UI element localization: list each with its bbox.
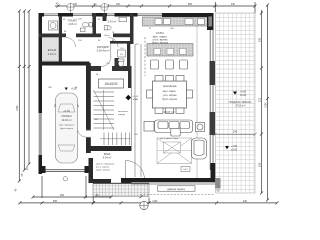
dining table <box>147 76 193 114</box>
svg-text:240: 240 <box>231 3 236 6</box>
right glass wall thin <box>209 30 212 170</box>
pantry hatch <box>42 38 60 62</box>
top <box>55 5 255 7</box>
svg-text:18x16/30: 18x16/30 <box>104 82 117 86</box>
svg-text:1190: 1190 <box>264 102 267 108</box>
svg-text:вкуп. површина: вкуп. површина <box>59 125 75 127</box>
svg-text:бруто. вкупна: бруто. вкупна <box>60 128 74 130</box>
wc1 fixtures <box>81 23 93 32</box>
terrace grid <box>216 13 256 193</box>
svg-text:158: 158 <box>258 162 261 167</box>
garage labels <box>59 109 75 130</box>
wc2 walls <box>103 13 107 21</box>
stairs left wall (garage right wall) <box>86 63 91 130</box>
svg-text:дрвена тераса: дрвена тераса <box>167 188 185 191</box>
svg-text:595: 595 <box>53 200 58 203</box>
svg-text:2.43 m²: 2.43 m² <box>108 21 117 24</box>
DIMENSION LINES <box>18 2 279 204</box>
svg-text:240: 240 <box>233 130 238 134</box>
svg-text:бруто. вкупна: бруто. вкупна <box>162 99 177 101</box>
rug with coffee table <box>157 138 192 164</box>
svg-text:бруто. вкупна: бруто. вкупна <box>96 170 111 172</box>
svg-text:вкуп. површ.: вкуп. површ. <box>163 91 177 93</box>
svg-text:ШПАЈЗ: ШПАЈЗ <box>48 49 57 52</box>
stairs lower flight <box>100 133 131 146</box>
porch tiles <box>93 183 149 197</box>
dim texts <box>53 3 248 204</box>
svg-text:18.07 m²: 18.07 m² <box>163 110 174 114</box>
entry door arc <box>126 161 145 180</box>
svg-text:ГАРАЖА: ГАРАЖА <box>61 114 72 118</box>
wc1 right wall <box>93 13 97 37</box>
interior thin lines <box>131 37 145 177</box>
left verticals <box>18 11 20 181</box>
scattered tiny dim texts <box>48 19 174 137</box>
small toilet room below wc2 <box>110 41 130 69</box>
bottom right corner <box>211 163 216 182</box>
wc2 fixtures <box>104 17 126 30</box>
svg-text:±0.00: ±0.00 <box>240 94 247 97</box>
right wall dark panels <box>210 61 216 85</box>
svg-text:ГРАДИНА ТЕРАСА: ГРАДИНА ТЕРАСА <box>229 100 252 104</box>
laundry/pantry right wall <box>59 16 62 64</box>
svg-text:3.05+4a m²: 3.05+4a m² <box>97 50 110 53</box>
terrace inner dim line <box>214 133 257 136</box>
wall under laundry <box>39 34 63 38</box>
svg-text:+0.00: +0.00 <box>63 109 70 113</box>
side table with lamp <box>196 123 205 132</box>
svg-text:4.03 m²: 4.03 m² <box>68 23 77 26</box>
living bottom wall <box>121 178 215 182</box>
washing machine <box>49 21 58 30</box>
svg-text:1190: 1190 <box>16 105 19 111</box>
garage level mark <box>65 88 78 91</box>
corridor door arcs <box>66 38 76 48</box>
kitchen counter top <box>143 17 212 26</box>
interior boundary line <box>196 17 198 178</box>
svg-text:бруто. вкупна: бруто. вкупна <box>152 42 168 45</box>
terrace labels <box>225 91 252 152</box>
floor vent box <box>181 167 190 172</box>
svg-text:19.04 m²: 19.04 m² <box>61 118 71 122</box>
corridor top walls <box>62 34 66 38</box>
svg-text:дво седишта софа: дво седишта софа <box>160 137 179 140</box>
bar stools <box>151 60 188 69</box>
left wall <box>39 13 43 113</box>
garage top wall <box>39 62 90 66</box>
bottom label box <box>158 186 196 191</box>
extension ticks bottom of garage <box>41 176 43 198</box>
svg-text:уто.е. вкупна: уто.е. вкупна <box>96 167 110 169</box>
stairs upper flight <box>94 90 115 130</box>
svg-text:240: 240 <box>258 37 261 42</box>
svg-text:213: 213 <box>258 97 261 102</box>
entry left wall <box>89 158 94 183</box>
right wall top corner <box>207 13 214 30</box>
kitchen island <box>147 44 193 57</box>
top wall segments <box>39 13 45 17</box>
small circle near garage door <box>63 177 67 181</box>
section circle bottom <box>140 201 148 209</box>
svg-text:±0.00: ±0.00 <box>231 148 238 151</box>
axis markers top <box>67 3 108 10</box>
bottom <box>33 196 111 198</box>
svg-text:1.04 m²: 1.04 m² <box>48 53 57 56</box>
corridor bottom walls <box>86 66 101 71</box>
top windows (thin) <box>44 13 58 16</box>
svg-text:уто.е. вкупна: уто.е. вкупна <box>163 95 178 97</box>
svg-text:195: 195 <box>73 3 78 6</box>
room labels <box>48 20 169 160</box>
sofa <box>144 120 193 136</box>
svg-text:просто. површина: просто. површина <box>96 164 115 166</box>
level marker hall <box>126 95 139 101</box>
svg-text:240: 240 <box>243 200 248 203</box>
svg-text:монтажна: монтажна <box>118 111 129 113</box>
svg-text:292: 292 <box>60 194 65 197</box>
svg-text:160: 160 <box>116 3 121 6</box>
svg-text:1191: 1191 <box>152 200 158 203</box>
svg-text:565: 565 <box>188 3 193 6</box>
svg-text:292: 292 <box>26 165 29 170</box>
svg-text:4.04 m²: 4.04 m² <box>103 157 112 160</box>
WALLS <box>39 13 221 189</box>
svg-text:+1.45: +1.45 <box>133 96 139 98</box>
garage bottom stubs and door <box>39 166 46 173</box>
svg-text:27,03 m²: 27,03 m² <box>235 105 245 108</box>
svg-text:ограда: ограда <box>118 114 126 116</box>
stairs bottom wall <box>90 146 132 151</box>
car <box>55 93 79 163</box>
svg-text:трпезарија: трпезарија <box>163 84 177 88</box>
right verticals <box>261 10 263 193</box>
stairs label box <box>99 79 124 88</box>
armchair <box>192 138 207 159</box>
wall right of stairs <box>128 66 132 88</box>
entry bottom wall <box>93 179 111 183</box>
